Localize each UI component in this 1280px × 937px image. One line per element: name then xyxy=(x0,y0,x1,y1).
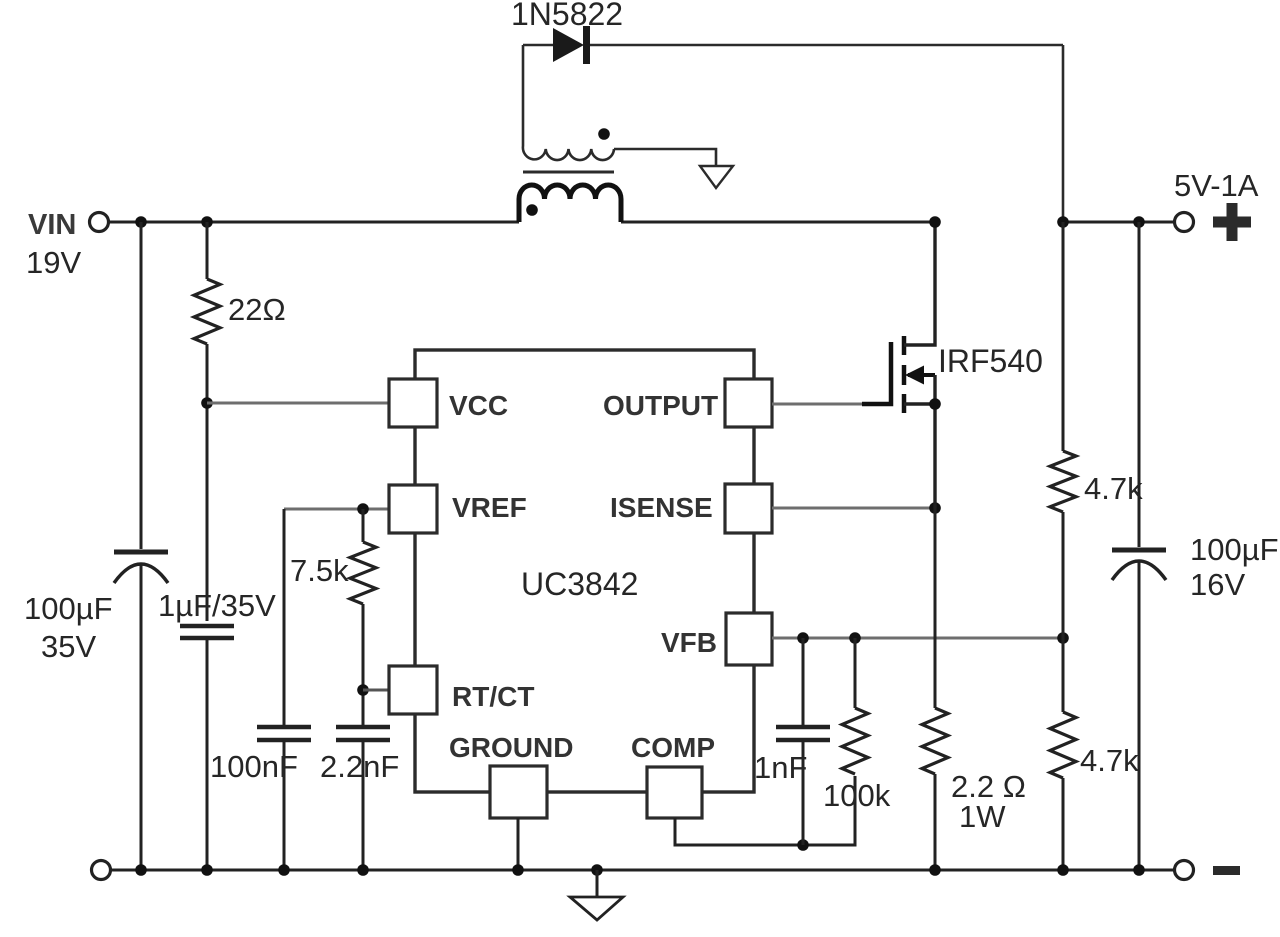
node: ground stem junction xyxy=(512,864,524,876)
secondary phase dot xyxy=(598,128,610,140)
resistor 4.7k upper xyxy=(1050,222,1143,638)
svg-text:19V: 19V xyxy=(26,245,81,280)
wire: VFB net xyxy=(772,637,1063,640)
wire: output rail right segment xyxy=(1063,221,1174,224)
svg-text:GROUND: GROUND xyxy=(449,732,573,763)
pin OUTPUT xyxy=(725,379,772,427)
svg-text:35V: 35V xyxy=(41,629,96,664)
pin GROUND xyxy=(490,766,547,818)
node: output rail junction x1139 xyxy=(1133,216,1145,228)
svg-text:4.7k: 4.7k xyxy=(1080,743,1139,778)
wire: RT/CT pin wire xyxy=(363,689,389,692)
node: bottom junction x363 xyxy=(357,864,369,876)
node: VFB/divider junction xyxy=(1057,632,1069,644)
node: rail junction x207 xyxy=(201,216,213,228)
node: VFB/100k junction xyxy=(849,632,861,644)
wire: secondary to ground xyxy=(614,149,716,166)
wire: VREF pin wire xyxy=(284,508,389,511)
node: rail junction x141 xyxy=(135,216,147,228)
resistor 7.5k xyxy=(290,509,376,604)
node: bottom junction x141 xyxy=(135,864,147,876)
svg-text:5V-1A: 5V-1A xyxy=(1174,168,1259,203)
wire: GROUND pin stem xyxy=(517,818,520,870)
svg-text:1µF/35V: 1µF/35V xyxy=(158,588,276,623)
svg-text:VFB: VFB xyxy=(661,627,717,658)
channel segment bottom xyxy=(902,394,907,413)
svg-text:2.2nF: 2.2nF xyxy=(320,749,399,784)
IC U1 UC3842 body xyxy=(415,350,754,792)
svg-text:IRF540: IRF540 xyxy=(938,343,1043,379)
drain lead xyxy=(904,222,935,345)
capacitor 100uF/35V xyxy=(24,222,168,870)
capacitor 1nF xyxy=(754,638,830,845)
svg-text:VCC: VCC xyxy=(449,390,508,421)
pin COMP xyxy=(647,767,702,818)
node: COMP/1nF junction xyxy=(797,839,809,851)
terminal output plus xyxy=(1175,213,1194,232)
diode 1N5822 xyxy=(511,0,1063,64)
svg-text:1N5822: 1N5822 xyxy=(511,0,623,32)
channel segment top xyxy=(902,336,907,355)
source lead xyxy=(904,404,935,508)
ground symbol (secondary) xyxy=(700,166,733,188)
svg-text:16V: 16V xyxy=(1190,567,1245,602)
plus sign xyxy=(1213,203,1251,241)
node: drain/rail junction xyxy=(929,216,941,228)
pin VFB xyxy=(726,613,772,665)
node: bottom junction x1139 xyxy=(1133,864,1145,876)
resistor 2.2R 1W xyxy=(922,508,1026,870)
node: bottom junction x284 xyxy=(278,864,290,876)
svg-text:7.5k: 7.5k xyxy=(290,553,349,588)
secondary winding xyxy=(523,45,614,160)
primary phase dot xyxy=(526,204,538,216)
wire: top rail VIN to primary left xyxy=(109,221,519,224)
primary winding xyxy=(519,185,621,222)
node: bottom junction x935 xyxy=(929,864,941,876)
node: VFB/1nF junction xyxy=(797,632,809,644)
body arrow xyxy=(908,373,935,377)
wire: 7.5k to RT/CT node xyxy=(362,604,365,725)
pin VCC xyxy=(389,379,437,427)
svg-text:22Ω: 22Ω xyxy=(228,292,286,327)
svg-text:OUTPUT: OUTPUT xyxy=(603,390,718,421)
resistor 100k xyxy=(823,638,891,813)
core xyxy=(523,171,614,174)
svg-text:VIN: VIN xyxy=(28,209,76,241)
svg-text:VREF: VREF xyxy=(452,492,527,523)
wire: top rail primary right to MOSFET drain xyxy=(621,221,935,224)
ground symbol (bottom) xyxy=(570,864,623,920)
node: source junction xyxy=(929,398,941,410)
wire: bottom ground rail xyxy=(111,869,1174,872)
resistor 4.7k lower xyxy=(1050,638,1139,870)
node: bottom junction x1063 xyxy=(1057,864,1069,876)
node: source/ISENSE junction xyxy=(929,502,941,514)
gate bar xyxy=(862,342,891,404)
resistor 22R xyxy=(194,222,286,344)
svg-text:1nF: 1nF xyxy=(754,750,807,785)
wire: OUTPUT pin to gate xyxy=(772,403,866,406)
svg-text:ISENSE: ISENSE xyxy=(610,492,713,523)
wire: diode cathode drop xyxy=(1062,45,1065,222)
channel segment middle xyxy=(902,365,907,385)
capacitor 100uF/16V xyxy=(1112,222,1279,870)
terminal bottom-left xyxy=(92,861,111,880)
capacitor 100nF xyxy=(210,509,311,870)
wire: COMP pin to 100k bottom xyxy=(675,776,855,845)
wire: VCC pin wire xyxy=(207,402,389,405)
node: RT/CT junction xyxy=(357,684,369,696)
pin ISENSE xyxy=(725,484,772,533)
terminal output minus xyxy=(1175,861,1194,880)
node: VREF junction x363 xyxy=(357,503,369,515)
node: VCC junction xyxy=(201,397,213,409)
pin VREF xyxy=(389,485,437,533)
node: bottom junction x207 xyxy=(201,864,213,876)
svg-text:RT/CT: RT/CT xyxy=(452,681,534,712)
svg-text:100µF: 100µF xyxy=(1190,532,1279,567)
MOSFET Q1 IRF540 xyxy=(772,222,1043,508)
capacitor 1uF/35V xyxy=(158,588,276,870)
svg-text:1W: 1W xyxy=(959,799,1006,834)
svg-text:100k: 100k xyxy=(823,778,891,813)
svg-text:COMP: COMP xyxy=(631,732,715,763)
transformer T1 xyxy=(519,45,621,222)
svg-text:4.7k: 4.7k xyxy=(1084,471,1143,506)
terminal VIN xyxy=(90,213,109,232)
pin RT/CT xyxy=(389,666,437,714)
minus sign xyxy=(1213,866,1240,875)
wire: ISENSE pin wire xyxy=(772,507,935,510)
svg-text:UC3842: UC3842 xyxy=(521,566,638,602)
svg-text:100nF: 100nF xyxy=(210,749,298,784)
node: output rail junction x1063 xyxy=(1057,216,1069,228)
svg-text:100µF: 100µF xyxy=(24,591,113,626)
wire: 22R to VCC node xyxy=(206,344,209,621)
capacitor 2.2nF xyxy=(320,727,399,870)
